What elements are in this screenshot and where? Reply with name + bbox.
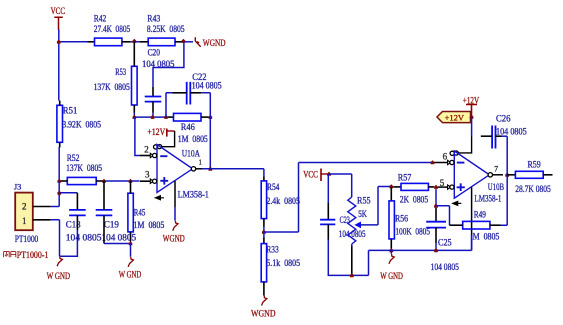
svg-text:VCC: VCC bbox=[51, 7, 65, 17]
wire inv net to pin2 bbox=[135, 117, 140, 155]
svg-text:R45: R45 bbox=[134, 209, 146, 219]
svg-text:27.4K 0805: 27.4K 0805 bbox=[94, 25, 131, 35]
svg-text:+12V: +12V bbox=[147, 128, 165, 138]
resistor R49 bbox=[463, 221, 490, 229]
capacitor C18 bbox=[69, 210, 86, 216]
svg-text:R56: R56 bbox=[395, 214, 408, 224]
junction U10B output bbox=[505, 173, 509, 177]
junction out node U10A bbox=[209, 167, 213, 171]
svg-text:1M 0805: 1M 0805 bbox=[133, 221, 164, 231]
svg-text:VCC: VCC bbox=[303, 171, 318, 181]
pin C23.2 bbox=[327, 224, 329, 240]
svg-text:104 0805: 104 0805 bbox=[431, 263, 459, 273]
wire to WGND C19/R45 bbox=[130, 244, 132, 257]
power VCC mid bbox=[321, 169, 330, 182]
pin R55 bottom lead bbox=[351, 246, 353, 275]
wire U10B gnd to rail bbox=[471, 235, 473, 250]
wire C19 to gnd node bbox=[104, 243, 131, 245]
wire C22 left to rail117 bbox=[166, 93, 173, 117]
svg-text:R33: R33 bbox=[266, 246, 279, 256]
svg-text:100K 0805: 100K 0805 bbox=[395, 228, 430, 238]
junction C19 top bbox=[102, 179, 106, 183]
junction C18 branch bbox=[57, 191, 61, 195]
junction R45 bottom bbox=[129, 241, 133, 245]
ground WGND rail bbox=[389, 254, 394, 264]
wire C26 right bbox=[502, 135, 508, 137]
pin R52.1 bbox=[61, 180, 68, 182]
capacitor C20 bbox=[145, 97, 162, 102]
ground WGND U10A bbox=[173, 221, 178, 231]
pin R46.2 bbox=[201, 116, 209, 118]
svg-text:R55: R55 bbox=[357, 196, 371, 206]
resistor R57 bbox=[401, 183, 428, 190]
pin U10A V+ circles bbox=[154, 145, 162, 149]
junction pot bottom bbox=[350, 273, 354, 277]
svg-text:7: 7 bbox=[494, 163, 498, 173]
pin U10A.1 output bbox=[191, 167, 203, 171]
pin C26.2 bbox=[496, 135, 502, 137]
svg-text:137K 0805: 137K 0805 bbox=[94, 83, 130, 93]
wire R53-rail117 bbox=[133, 113, 135, 118]
wire C23 to lower loop bbox=[328, 240, 368, 276]
svg-text:PT1000-1: PT1000-1 bbox=[17, 251, 49, 261]
wire C20-rail117 bbox=[152, 113, 154, 118]
potentiometer R55 bbox=[348, 197, 356, 244]
pin R56.2 bbox=[390, 239, 392, 249]
pin R45.2 bbox=[130, 232, 132, 242]
svg-text:5.1k 0805: 5.1k 0805 bbox=[266, 259, 300, 269]
svg-text:WGND: WGND bbox=[203, 39, 226, 49]
pin R56.1 bbox=[390, 187, 392, 201]
svg-text:U10A: U10A bbox=[182, 149, 200, 159]
U10A V- arrow bbox=[155, 196, 164, 200]
svg-text:WGND: WGND bbox=[251, 309, 276, 319]
svg-text:C18: C18 bbox=[66, 221, 81, 231]
junction VCC rail bbox=[57, 40, 61, 44]
wire VCC stem bbox=[58, 30, 60, 42]
svg-text:2.4k 0805: 2.4k 0805 bbox=[266, 197, 300, 207]
label neibu PT1000-1 (CJK) bbox=[4, 252, 16, 258]
svg-text:R59: R59 bbox=[528, 161, 541, 171]
svg-text:LM358-1: LM358-1 bbox=[178, 190, 210, 200]
pin C25.2 bbox=[435, 228, 437, 243]
wire ground rail bbox=[369, 235, 472, 250]
pin R53.2 bbox=[133, 105, 135, 113]
junction C22 left bbox=[164, 115, 168, 119]
ground WGND top bbox=[195, 37, 200, 47]
pin R33.1 bbox=[263, 238, 265, 244]
pin R53.1 bbox=[133, 42, 135, 67]
junction C20 bottom bbox=[151, 115, 155, 119]
wire C22 right to out node bbox=[201, 93, 210, 169]
pin C20.1 bbox=[152, 87, 154, 97]
svg-text:R57: R57 bbox=[398, 173, 412, 183]
svg-text:R49: R49 bbox=[474, 210, 486, 220]
svg-text:104 0805: 104 0805 bbox=[142, 60, 175, 70]
svg-text:5: 5 bbox=[440, 179, 445, 189]
pin J3.2 bbox=[33, 206, 51, 208]
pin R45.1 bbox=[130, 181, 132, 193]
junction flag node bbox=[470, 115, 474, 119]
junction pin5 node bbox=[434, 185, 438, 189]
junction R43/WGND/C20 bbox=[182, 39, 186, 43]
svg-text:R53: R53 bbox=[115, 68, 126, 78]
wire R51-rail181 bbox=[58, 147, 60, 181]
resistor R33 bbox=[261, 244, 266, 282]
wire pot bottom stub bbox=[351, 244, 353, 247]
pin C19.1 bbox=[103, 181, 105, 210]
svg-text:R54: R54 bbox=[267, 183, 280, 193]
pin C19.2 bbox=[103, 215, 105, 243]
net flag +12V bbox=[437, 112, 471, 123]
pin R42.2 bbox=[122, 41, 131, 43]
pin R51.2 bbox=[59, 142, 61, 147]
svg-text:W GND: W GND bbox=[380, 272, 403, 282]
junction R45 top bbox=[129, 179, 133, 183]
wire C18 branch bbox=[59, 192, 77, 194]
resistor R59 bbox=[515, 171, 543, 178]
capacitor C23 bbox=[320, 220, 335, 225]
pin R54.2 bbox=[263, 219, 265, 227]
wire WGND stub R56 bbox=[390, 250, 392, 253]
pin U10B.5 bbox=[438, 186, 448, 188]
svg-text:R43: R43 bbox=[147, 15, 160, 25]
resistor R42 bbox=[95, 38, 122, 46]
svg-text:104 0805: 104 0805 bbox=[192, 82, 222, 92]
svg-text:R51: R51 bbox=[63, 107, 78, 117]
junction VCC node bbox=[327, 172, 331, 176]
svg-text:C20: C20 bbox=[148, 48, 161, 58]
wire wiper to R57 bbox=[361, 187, 392, 225]
capacitor C26 bbox=[492, 126, 495, 149]
pin J3.1 bbox=[33, 219, 51, 221]
pin U10B.7 output bbox=[488, 173, 503, 177]
pin C26.1 bbox=[481, 135, 492, 137]
pin U10B V- gnd bbox=[471, 187, 473, 235]
U10A minus bbox=[160, 155, 167, 157]
power +12V top bbox=[466, 105, 477, 118]
op-amp U10B bbox=[454, 151, 489, 198]
pin R52.2 bbox=[96, 180, 104, 182]
wire +12V down bbox=[471, 117, 473, 137]
connector J3 bbox=[15, 193, 33, 231]
resistor R45 bbox=[128, 193, 133, 232]
svg-text:3: 3 bbox=[145, 171, 150, 181]
wire J3 pin2 riser bbox=[58, 181, 60, 207]
svg-text:104 0805: 104 0805 bbox=[66, 234, 102, 244]
svg-text:1M 0805: 1M 0805 bbox=[178, 135, 208, 145]
wire to R49 left bbox=[436, 206, 450, 225]
svg-text:2: 2 bbox=[22, 203, 27, 213]
svg-text:WGND: WGND bbox=[163, 234, 185, 244]
pin C23.1 bbox=[327, 203, 329, 220]
pin C22.1 bbox=[173, 92, 187, 94]
pin R57.1 bbox=[393, 186, 401, 188]
svg-text:3.92K 0805: 3.92K 0805 bbox=[62, 120, 101, 130]
ground WGND J3/C18 bbox=[57, 256, 62, 266]
wire tap to pin6 bbox=[264, 163, 435, 233]
svg-text:6: 6 bbox=[443, 153, 448, 163]
svg-text:C19: C19 bbox=[104, 221, 119, 231]
junction C25 bottom bbox=[434, 248, 438, 252]
junction R57 left bbox=[389, 184, 393, 188]
wire +12V to U10A V+ bbox=[161, 131, 175, 147]
resistor R43 bbox=[148, 38, 175, 46]
pin R33.2 bbox=[263, 282, 265, 296]
junction R52 left bbox=[57, 179, 61, 183]
svg-text:137K 0805: 137K 0805 bbox=[66, 164, 102, 174]
pin C22.2 bbox=[190, 92, 201, 94]
wire C25 to rail bbox=[435, 243, 437, 250]
pin R43.1 bbox=[140, 41, 149, 43]
svg-text:28.7K 0805: 28.7K 0805 bbox=[515, 185, 551, 195]
wire C18 to WGND corner bbox=[60, 230, 78, 256]
ground WGND R33 bbox=[262, 296, 267, 306]
svg-text:PT1000: PT1000 bbox=[15, 235, 39, 245]
pin R42.1 bbox=[88, 41, 95, 43]
capacitor C25 bbox=[426, 222, 446, 228]
wire VCC to pot top bbox=[330, 174, 352, 197]
pin U10A V- gnd bbox=[174, 181, 176, 207]
pin R49.2 bbox=[490, 224, 501, 226]
wire VCC down to C23 bbox=[327, 174, 329, 203]
wire pin5 node down bbox=[435, 189, 437, 206]
pin C18.2 bbox=[76, 215, 78, 230]
svg-text:R42: R42 bbox=[94, 15, 107, 25]
svg-text:M 0805: M 0805 bbox=[473, 233, 500, 243]
wire R33 top bbox=[263, 232, 265, 238]
pin U10A.2 bbox=[140, 155, 150, 157]
junction pin6 wire end bbox=[431, 160, 435, 164]
wire output to R54 bbox=[263, 169, 265, 177]
pin C18.1 bbox=[76, 193, 78, 210]
pin R57.2 bbox=[428, 186, 434, 188]
wire rail117 bbox=[134, 116, 168, 118]
svg-text:R46: R46 bbox=[181, 123, 195, 133]
junction R53 bottom bbox=[133, 115, 137, 119]
pin R54.1 bbox=[263, 177, 265, 181]
svg-text:W GND: W GND bbox=[119, 271, 141, 281]
pin U10A.3 bbox=[140, 180, 150, 182]
wire C20 top loop bbox=[153, 42, 184, 87]
wire R49 right to out vline bbox=[501, 136, 508, 225]
svg-text:5K: 5K bbox=[358, 210, 367, 220]
op-amp U10A bbox=[157, 145, 193, 193]
U10B V- arrow bbox=[453, 201, 462, 205]
wire R43-WGND bbox=[182, 41, 193, 43]
capacitor C22 bbox=[187, 82, 191, 105]
svg-text:R52: R52 bbox=[67, 154, 80, 164]
pin U10B V+ circles bbox=[450, 151, 458, 156]
junction C25 top bbox=[434, 204, 438, 208]
svg-text:W GND: W GND bbox=[47, 272, 71, 282]
wire R54 to tap bbox=[263, 227, 265, 233]
pin R46.1 bbox=[168, 116, 174, 118]
wire VCC rail to R51 bbox=[58, 42, 60, 101]
R55 wiper arrow bbox=[354, 222, 361, 229]
svg-text:2: 2 bbox=[144, 146, 149, 156]
svg-text:+12V: +12V bbox=[445, 113, 465, 123]
wire +12V to U10B V+ bbox=[458, 137, 472, 153]
ground WGND C19/R45 bbox=[128, 257, 133, 267]
svg-text:C26: C26 bbox=[496, 115, 511, 125]
U10B minus bbox=[457, 162, 465, 164]
wire top rail VCC-R42 bbox=[59, 41, 88, 43]
svg-text:J3: J3 bbox=[14, 181, 22, 191]
U10A plus bbox=[160, 177, 168, 185]
wire U10A output bbox=[202, 168, 264, 170]
svg-text:1: 1 bbox=[199, 158, 202, 167]
junction divider tap bbox=[262, 230, 266, 234]
wire rail181 bbox=[104, 180, 140, 182]
power VCC top bbox=[54, 17, 63, 30]
resistor R46 bbox=[174, 113, 202, 121]
wire J3.2 to riser bbox=[51, 206, 59, 208]
svg-text:1: 1 bbox=[22, 217, 26, 227]
resistor R56 bbox=[389, 201, 394, 239]
wire R42-R43 bbox=[131, 41, 140, 43]
svg-text:+12V: +12V bbox=[463, 97, 479, 107]
resistor R53 bbox=[132, 66, 138, 105]
U10B plus bbox=[457, 183, 465, 191]
junction R56 bottom bbox=[389, 248, 393, 252]
pin R51.1 bbox=[59, 101, 61, 106]
svg-text:LM358-1: LM358-1 bbox=[474, 195, 501, 205]
wire U10A gnd bbox=[174, 207, 176, 221]
pin C25.1 bbox=[435, 208, 437, 222]
power +12V U10A bbox=[167, 129, 175, 137]
capacitor C19 bbox=[96, 210, 113, 216]
svg-text:8.25K 0805: 8.25K 0805 bbox=[147, 25, 185, 35]
resistor R54 bbox=[261, 181, 266, 219]
pin U10B.6 bbox=[435, 162, 448, 164]
svg-text:C25: C25 bbox=[438, 238, 452, 248]
resistor R52 bbox=[67, 177, 96, 184]
pin R59.1 bbox=[507, 174, 515, 176]
junction R46 right bbox=[209, 115, 213, 119]
pin R43.2 bbox=[175, 41, 182, 43]
svg-text:2K 0805: 2K 0805 bbox=[400, 195, 429, 205]
svg-text:U10B: U10B bbox=[488, 183, 504, 193]
pin R59.2 bbox=[543, 174, 552, 176]
junction R42/R43/R53 bbox=[133, 39, 137, 43]
resistor R51 bbox=[57, 105, 63, 142]
pin C20.2 bbox=[152, 102, 154, 113]
pin R49.1 bbox=[450, 224, 463, 226]
wire J3.1 to WGND bbox=[50, 220, 59, 256]
